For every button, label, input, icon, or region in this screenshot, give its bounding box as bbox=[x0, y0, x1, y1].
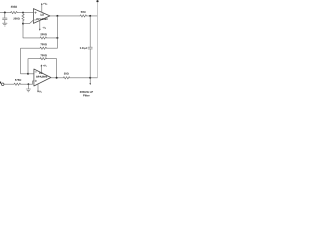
ground below bias node bbox=[26, 84, 31, 92]
wire port to bias resistor bbox=[4, 83, 14, 85]
resistor RO2 50 ohm bottom output bbox=[63, 77, 70, 79]
resistor R1 402 ohm series input bbox=[11, 11, 18, 13]
+VS supply arrow of U2 bbox=[40, 66, 42, 73]
op-amp U2 1/2 OPA2690 bbox=[34, 69, 51, 86]
wire RF2 left to node D2 bbox=[28, 59, 40, 74]
capacitor C2 0.01uF across differential outputs bbox=[88, 16, 92, 78]
label 300kHz LP Filter bbox=[80, 91, 81, 93]
resistor RG 200 ohm vertical bbox=[22, 13, 24, 14]
capacitor C1 input shunt bbox=[3, 13, 8, 23]
ground bbox=[3, 23, 8, 26]
wire input line from left edge to op-amp U1 non-inverting input bbox=[0, 12, 33, 14]
+VS supply arrow of U1 bbox=[41, 4, 43, 12]
wire RF2 right down to U2 output bbox=[47, 59, 57, 78]
pin + of U1 bbox=[35, 12, 37, 14]
node bias bypass tap bbox=[28, 83, 30, 85]
wire RO2 to right edge bbox=[70, 77, 98, 79]
wire U2 output bbox=[51, 77, 63, 79]
partial cropped label at left edge bbox=[0, 82, 1, 84]
node RF1 rail junction bbox=[56, 37, 58, 39]
wire D1 to U1 inverting input bbox=[23, 20, 33, 24]
pin + of U2 bbox=[35, 80, 37, 82]
resistor RF1 200 ohm feedback of U1 bbox=[40, 37, 47, 39]
node U1 output rail junction bbox=[56, 15, 58, 17]
wire right edge vertical rail to filter bbox=[96, 3, 98, 78]
pin - of U2 bbox=[35, 71, 37, 73]
wire feedback rail down to cross resistor bbox=[47, 16, 58, 48]
wire R2 left down to node D2 bbox=[21, 48, 40, 74]
node U2 output rail junction bbox=[56, 77, 58, 79]
resistor R2 750 ohm cross-coupling bbox=[40, 47, 47, 49]
resistor RF2 750 ohm feedback of U2 bbox=[40, 58, 47, 60]
wire U1 output bbox=[50, 15, 80, 17]
cropped mark top right corner bbox=[96, 0, 98, 2]
op-amp U1 1/2 OPA2690 bbox=[33, 9, 50, 24]
pin - of U1 bbox=[35, 19, 37, 21]
node input junction bbox=[4, 12, 6, 14]
port bias input terminal bbox=[1, 83, 4, 86]
resistor RO1 50 ohm top output bbox=[80, 15, 87, 17]
arrow from bottom output node to filter label bbox=[89, 79, 91, 84]
node top output junction bbox=[89, 15, 91, 17]
wire RB to U2 non-inverting input bbox=[21, 81, 34, 84]
resistor RB 575 ohm bias bbox=[14, 83, 20, 85]
node D1 inverting input node of U1 bbox=[22, 23, 24, 25]
wire RF1 to output rail bbox=[47, 37, 58, 39]
-VS supply arrow of U1 bbox=[39, 21, 41, 29]
-VS supply arrow of U2 bbox=[37, 84, 39, 91]
node bottom output junction bbox=[89, 77, 91, 79]
wire D1 down to feedback resistor RF1 bbox=[23, 24, 40, 38]
wire RO1 to right edge bbox=[87, 15, 98, 17]
node RG tap on input line bbox=[22, 12, 24, 14]
node D2 inverting input node of U2 bbox=[27, 73, 29, 75]
wire D2 to U2 inverting input bbox=[28, 73, 34, 75]
